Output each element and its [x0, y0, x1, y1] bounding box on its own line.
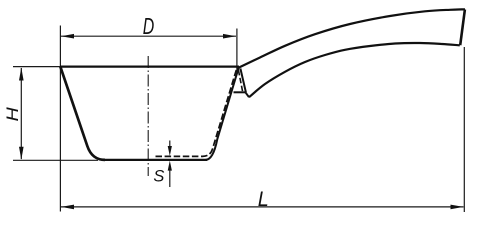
svg-text:D: D [143, 13, 155, 39]
svg-text:H: H [4, 107, 22, 121]
svg-text:L: L [258, 188, 269, 211]
svg-text:S: S [153, 168, 164, 186]
